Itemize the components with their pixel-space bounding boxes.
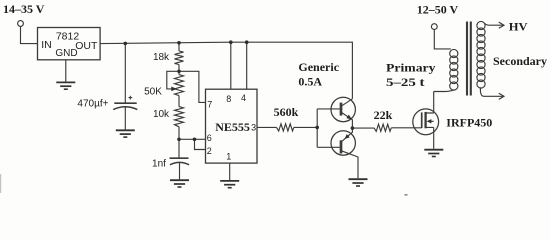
svg-text:12–50 V: 12–50 V — [417, 3, 459, 17]
svg-text:14–35 V: 14–35 V — [3, 2, 45, 16]
svg-text:NE555: NE555 — [215, 120, 250, 134]
svg-text:5–25 t: 5–25 t — [386, 75, 425, 89]
svg-text:6: 6 — [207, 133, 212, 143]
svg-text:10k: 10k — [153, 109, 170, 120]
svg-text:1nf: 1nf — [152, 159, 166, 170]
svg-text:GND: GND — [55, 48, 77, 59]
svg-text:470µf+: 470µf+ — [77, 99, 108, 110]
svg-text:7: 7 — [207, 99, 212, 109]
svg-text:4: 4 — [241, 93, 246, 103]
svg-text:560k: 560k — [274, 105, 299, 119]
svg-text:Generic: Generic — [298, 60, 339, 74]
svg-text:Secondary: Secondary — [493, 54, 547, 68]
svg-text:0.5A: 0.5A — [298, 75, 322, 89]
svg-text:8: 8 — [226, 94, 231, 104]
svg-text:2: 2 — [207, 146, 212, 156]
svg-text:IRFP450: IRFP450 — [446, 115, 492, 129]
svg-text:18k: 18k — [153, 52, 170, 63]
svg-text:IN: IN — [41, 39, 52, 51]
svg-text:Primary: Primary — [386, 60, 436, 74]
svg-text:1: 1 — [226, 151, 231, 161]
svg-text:OUT: OUT — [75, 40, 98, 52]
svg-text:3: 3 — [251, 123, 256, 133]
svg-text:50K: 50K — [144, 87, 162, 98]
svg-text:22k: 22k — [374, 108, 393, 122]
svg-text:HV: HV — [509, 19, 528, 33]
